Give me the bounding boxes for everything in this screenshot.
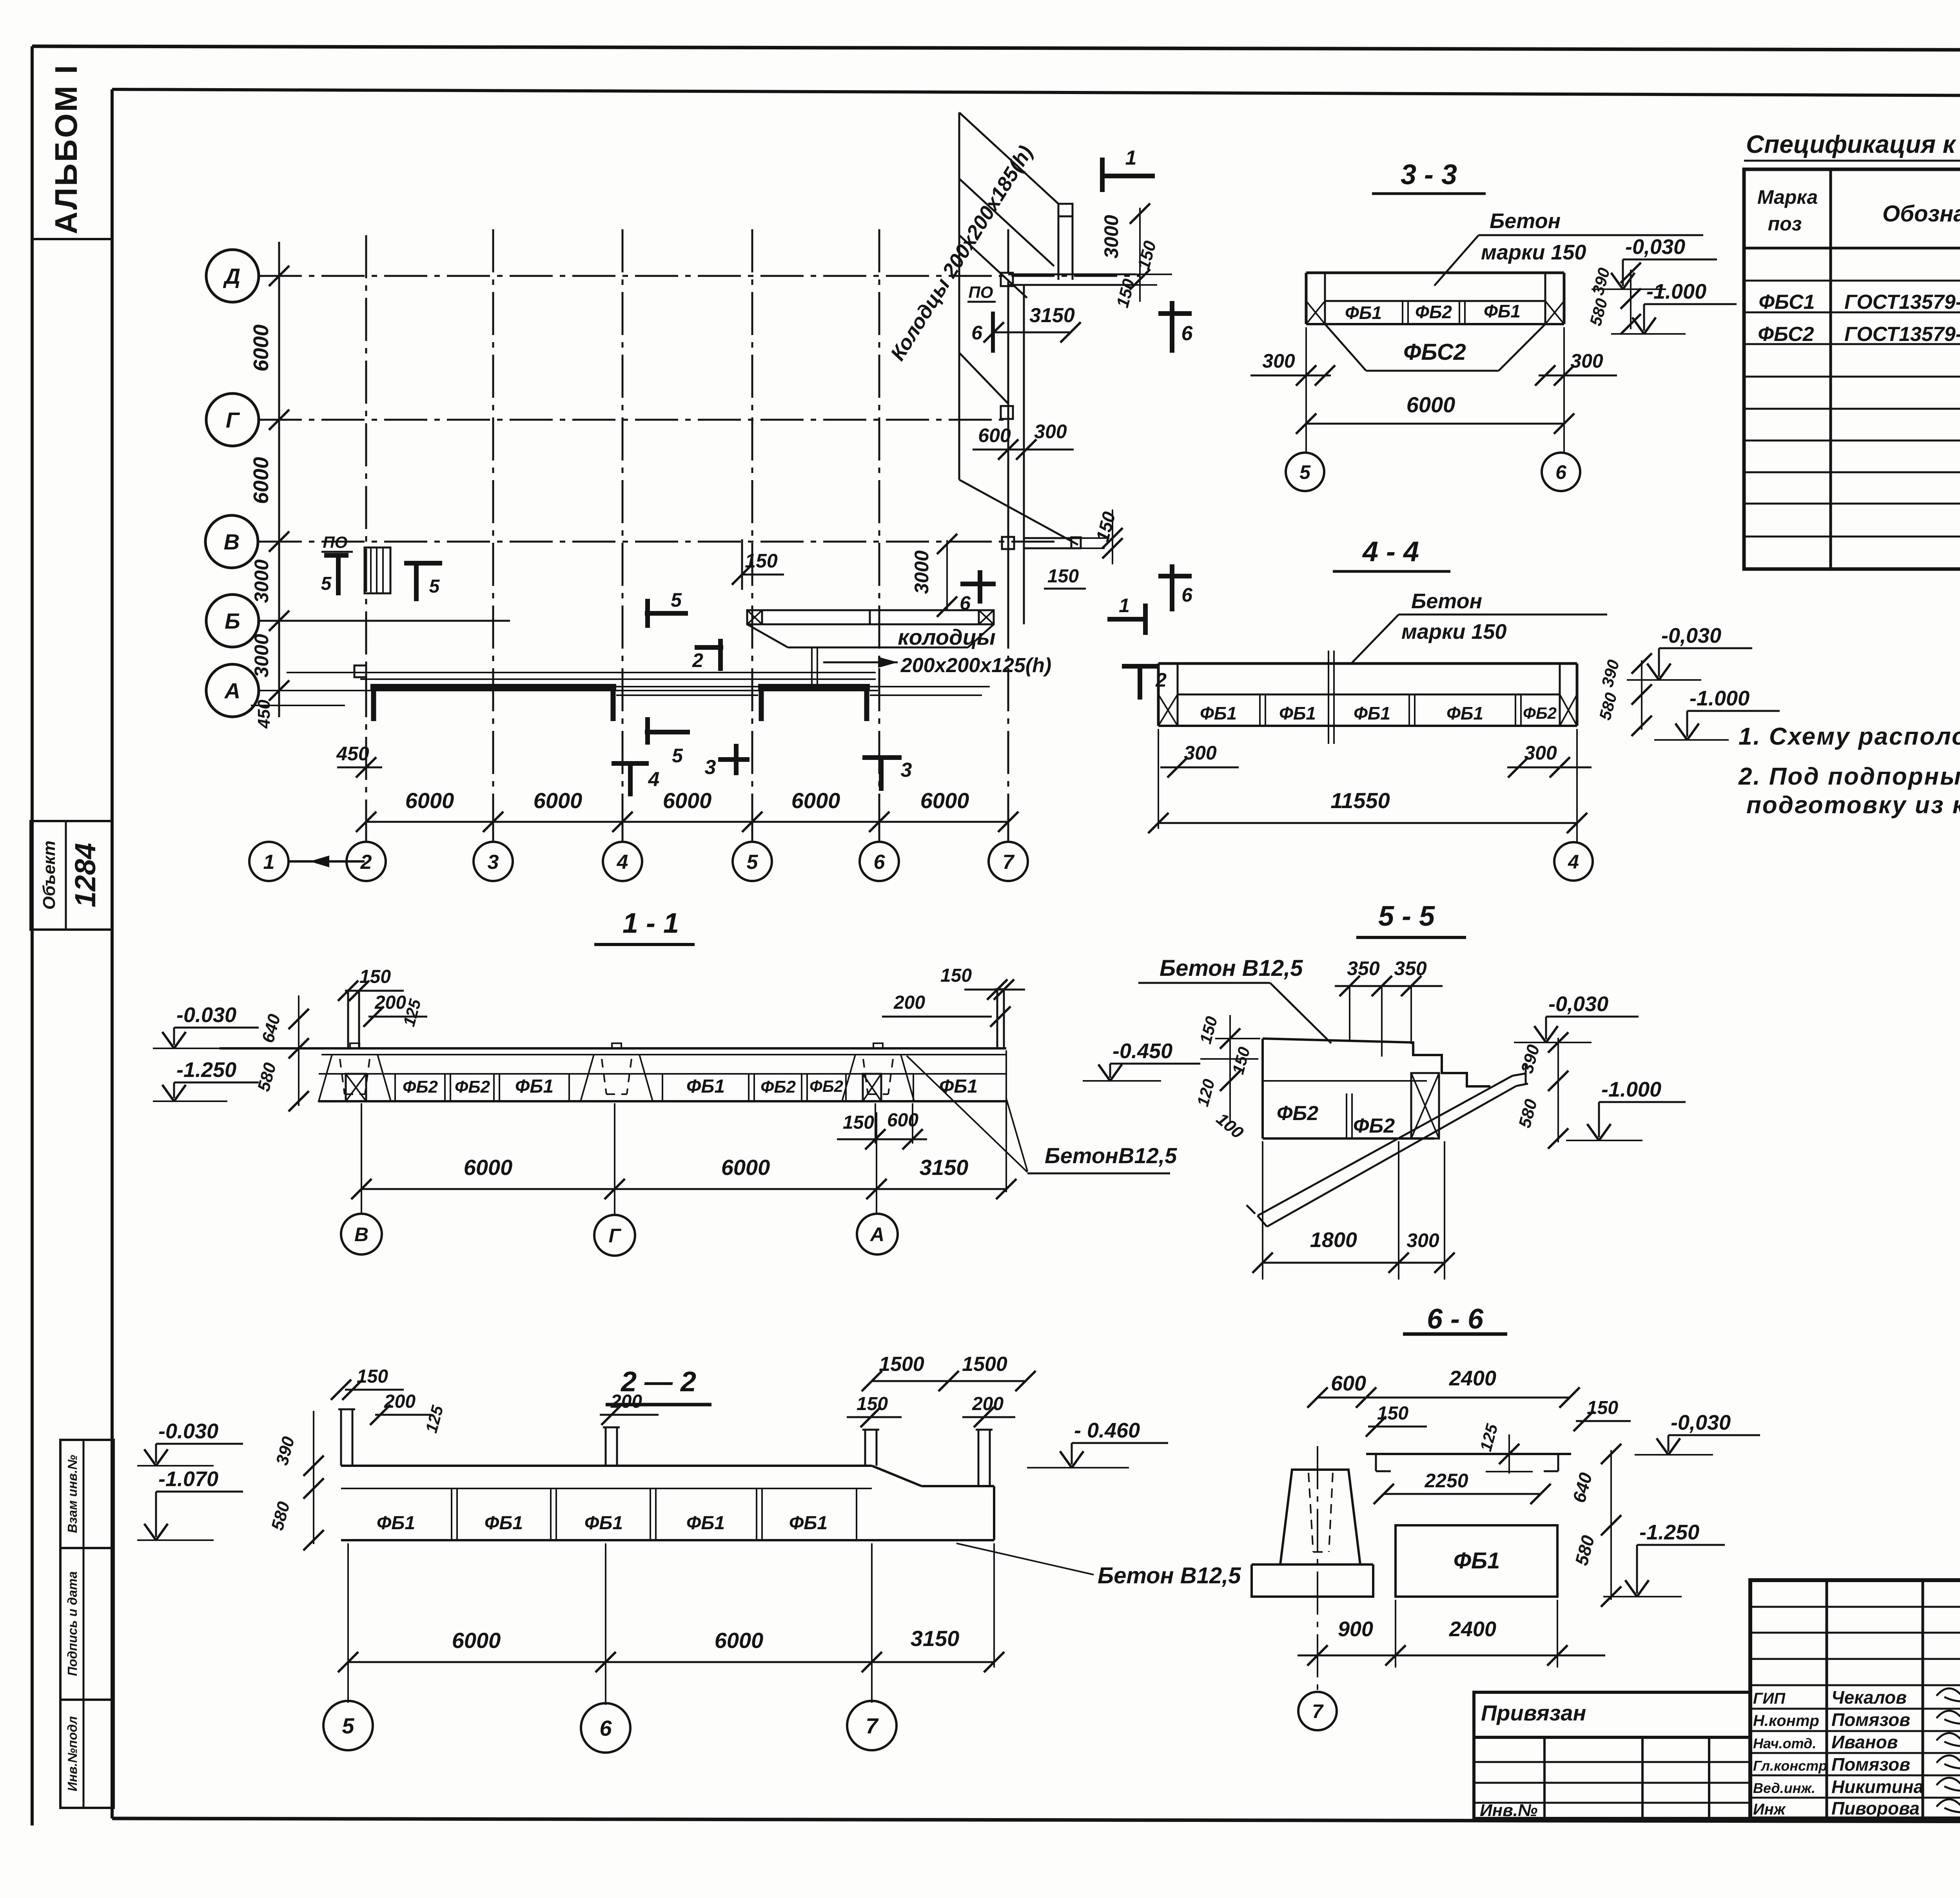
spec table row line 8	[1744, 503, 1960, 505]
svg-text:ПО: ПО	[323, 533, 348, 551]
svg-text:Н.контр: Н.контр	[1753, 1712, 1819, 1729]
radiator hatch lines	[370, 547, 372, 593]
dim 3000 top right extension	[1139, 208, 1141, 302]
sheet outer top border	[32, 46, 1960, 51]
section 5-5 x block	[1411, 1073, 1439, 1138]
object box	[31, 821, 112, 930]
section 4-4 slab top line	[1158, 662, 1577, 665]
section 1-1 footing cap tick B	[350, 1043, 359, 1048]
svg-text:3: 3	[488, 851, 499, 874]
svg-text:3150: 3150	[911, 1626, 960, 1651]
section 2-2 right end extension	[993, 1543, 995, 1668]
svg-text:6000: 6000	[249, 324, 273, 372]
section mark PO-5 left bar	[324, 553, 348, 558]
shaft band diagonal 4	[959, 353, 1008, 404]
svg-text:ФБ1: ФБ1	[584, 1513, 623, 1534]
dim line right of wall D	[1136, 274, 1172, 275]
svg-text:3150: 3150	[920, 1155, 969, 1180]
svg-text:1: 1	[1119, 595, 1130, 616]
svg-text:Бетон: Бетон	[1411, 589, 1482, 613]
dim 600-300 line	[973, 449, 1074, 451]
section 5-5 right dim extension	[1557, 1038, 1559, 1142]
section 6-6 axis dashdot line	[1317, 1446, 1318, 1692]
kolodtsy trapezoid bottom	[788, 647, 968, 649]
kolodtsy plate left end block	[747, 610, 762, 624]
wall A channel 1 left leg	[371, 687, 376, 721]
section 5-5 beton shelf	[1138, 982, 1270, 984]
chain tick at axis y=1584	[269, 611, 289, 631]
upper wall vertical right line	[1072, 207, 1074, 280]
svg-text:3000: 3000	[1100, 215, 1122, 258]
section 2-2 stub at axis 6	[605, 1427, 607, 1466]
section 3-3 extension line right	[1563, 327, 1565, 453]
title block name row line 4	[1750, 1775, 1960, 1777]
section 5-5 ramp top line	[1258, 1076, 1512, 1216]
svg-text:Иванов: Иванов	[1831, 1732, 1898, 1752]
section 1-1 second line	[321, 1054, 1006, 1055]
svg-text:Помязов: Помязов	[1831, 1709, 1910, 1730]
plan row axis circle D	[206, 250, 259, 302]
svg-text:Бетон В12,5: Бетон В12,5	[1098, 1563, 1241, 1588]
section 4-4 right edge outer	[1576, 663, 1579, 726]
spec table row line 9	[1744, 536, 1960, 538]
chain tick at axis y=1071	[269, 410, 289, 430]
section mark T6 top right	[1158, 311, 1192, 316]
svg-text:6000: 6000	[920, 788, 969, 813]
section mark T5	[404, 561, 442, 566]
section 3-3 circle 6	[1542, 453, 1580, 491]
svg-text:-1.000: -1.000	[1690, 687, 1749, 710]
section 4-4 right edge inner	[1559, 663, 1561, 726]
svg-text:ФБ1: ФБ1	[789, 1513, 828, 1534]
svg-text:1800: 1800	[1310, 1228, 1357, 1252]
section 1-1 extension to circle A	[876, 1112, 877, 1213]
section 1-1 extension to circle G	[614, 1103, 615, 1214]
svg-text:150: 150	[357, 1366, 388, 1387]
svg-text:Обозначение: Обозначение	[1882, 201, 1960, 227]
section 3-3 right x block	[1545, 301, 1564, 324]
section mark 5 mid	[645, 611, 688, 616]
section 5-5 bottom dim line	[1263, 1262, 1445, 1264]
column stub to circle x=934	[365, 822, 367, 842]
svg-text:2. Под подпорные стенки и: 2. Под подпорные стенки и ступени выполн…	[1738, 763, 1960, 790]
section 5-5 wall top outline	[1263, 1039, 1490, 1086]
svg-text:5: 5	[429, 576, 440, 597]
svg-text:Подпись и дата: Подпись и дата	[65, 1571, 80, 1676]
svg-text:2400: 2400	[1449, 1617, 1496, 1641]
section mark 5 lower mid	[645, 730, 690, 734]
annex sub row line 1	[1474, 1761, 1750, 1763]
section mark 6 lower right	[1158, 574, 1192, 578]
plan column axis 7	[1007, 229, 1009, 822]
svg-text:350: 350	[1394, 957, 1427, 979]
section 1-1 left upstand	[347, 991, 349, 1048]
svg-text:450: 450	[336, 743, 369, 765]
section 2-2 dim 1500 line	[872, 1380, 1025, 1382]
svg-text:2: 2	[1155, 669, 1167, 691]
section 4-4 blocks bottom line	[1158, 725, 1577, 727]
svg-text:Инв.№: Инв.№	[1480, 1801, 1537, 1820]
shaft band diagonal 2	[959, 179, 1054, 266]
section 2-2 extension to circle 7	[871, 1543, 873, 1703]
svg-text:Никитина: Никитина	[1831, 1777, 1924, 1797]
section 6-6 top dim line	[1318, 1397, 1570, 1399]
kolodtsy connector vertical left	[811, 647, 813, 685]
svg-text:7: 7	[1312, 1700, 1324, 1722]
section 5-5 left dim lines	[1229, 1015, 1231, 1122]
section 6-6 extension right	[1557, 1600, 1558, 1668]
section 1-1 circle G	[594, 1215, 635, 1256]
svg-text:А: А	[224, 678, 240, 703]
section 4-4 beton shelf	[1399, 614, 1607, 616]
svg-text:ФБС1: ФБС1	[1759, 291, 1815, 314]
shaft band left vertical line	[958, 112, 960, 480]
svg-text:ФБ1: ФБ1	[485, 1513, 523, 1534]
chain tick at axis y=1762	[269, 680, 289, 701]
svg-text:150: 150	[1047, 566, 1079, 587]
plan row axis circle G	[206, 393, 259, 446]
svg-text:7: 7	[866, 1713, 879, 1738]
svg-text:350: 350	[1347, 957, 1380, 979]
section mark 6 lower left	[960, 582, 996, 586]
svg-text:150: 150	[940, 965, 972, 986]
kolodtsy trapezoid right side	[968, 624, 994, 647]
svg-text:ГИП: ГИП	[1753, 1690, 1786, 1707]
section 2-2 block dividers	[451, 1488, 452, 1540]
svg-text:ФБ1: ФБ1	[1446, 703, 1483, 723]
svg-text:ФБ1: ФБ1	[1354, 703, 1390, 723]
svg-text:5: 5	[1299, 461, 1311, 483]
svg-text:Помязов: Помязов	[1831, 1754, 1910, 1775]
svg-text:Д: Д	[223, 264, 240, 288]
signature of Помязов	[1936, 1708, 1960, 1724]
section 2-2 slab step diagonal	[872, 1466, 922, 1486]
spec table row line 4	[1744, 376, 1960, 378]
section 1-1 beton leader 1	[907, 1056, 1027, 1172]
section 3-3 extension line left	[1305, 327, 1307, 453]
shaft band diagonal 3	[959, 235, 1027, 298]
section 6-6 title underline	[1403, 1332, 1507, 1336]
svg-text:600: 600	[978, 424, 1011, 446]
svg-text:5: 5	[671, 589, 682, 611]
section 1-1 slab top line	[220, 1047, 1006, 1050]
svg-text:300: 300	[1184, 742, 1217, 764]
section 5-5 base top line	[1263, 1080, 1427, 1082]
section 4-4 block divider 3	[1515, 694, 1516, 726]
svg-text:ФБ1: ФБ1	[939, 1076, 978, 1097]
section 1-1 blocks bottom line	[319, 1100, 1006, 1102]
section 6-6 extension left	[1395, 1600, 1396, 1668]
left stamp divider 2	[60, 1699, 114, 1701]
kolodtsy plate top line	[747, 609, 994, 611]
svg-text:подготовку из крупнозернист: подготовку из крупнозернистого песка h =…	[1746, 792, 1960, 819]
section 5-5 ramp bottom line	[1267, 1086, 1516, 1227]
section 4-4 circle 4	[1554, 842, 1593, 881]
svg-text:1: 1	[263, 851, 275, 874]
svg-text:900: 900	[1338, 1617, 1373, 1641]
section 2-2 blocks bottom line	[341, 1539, 994, 1541]
section 3-3 right dim extension	[1630, 270, 1632, 329]
section 5-5 wall left edge	[1261, 1039, 1264, 1138]
title block outer border	[1750, 1580, 1960, 1818]
wall A thick channel 2 top bar	[758, 684, 870, 690]
plan column circle 4	[603, 842, 642, 881]
section 2-2 title underline	[606, 1403, 711, 1407]
section 1-1 left x block	[346, 1074, 366, 1101]
dim 150 near axis5 underline	[743, 574, 784, 576]
radiator hatch symbol frame	[365, 547, 390, 593]
wall V marker square	[1002, 537, 1014, 549]
svg-text:ФБ2: ФБ2	[455, 1077, 490, 1097]
axis A line	[259, 690, 878, 691]
svg-text:200х200х125(h): 200х200х125(h)	[900, 654, 1052, 677]
svg-text:300: 300	[1034, 421, 1067, 442]
svg-text:АЛЬБОМ I: АЛЬБОМ I	[49, 63, 83, 234]
left stamp divider 1	[60, 1547, 114, 1549]
svg-text:6000: 6000	[249, 457, 273, 504]
shaft band diagonal 1	[959, 112, 1058, 204]
shaft band bottom diagonal	[959, 480, 1078, 545]
section 1-1 footing cap tick G	[612, 1043, 621, 1048]
svg-text:300: 300	[1406, 1229, 1439, 1251]
section 1-1 footing cap tick A	[873, 1043, 883, 1048]
section 2-2 bottom dim line	[348, 1661, 994, 1663]
section 3-3 right edge outer	[1563, 273, 1566, 324]
plan column axis 5	[751, 229, 753, 822]
plan column circle 7	[989, 842, 1028, 881]
section 3-3 slab top line	[1306, 272, 1564, 274]
wall A channel 2 left leg	[759, 687, 764, 721]
svg-text:В: В	[354, 1224, 368, 1245]
svg-text:6: 6	[1181, 584, 1193, 606]
section 4-4 break line 2	[1333, 651, 1335, 744]
section 3-3 left edge inner	[1324, 273, 1326, 324]
svg-text:6000: 6000	[452, 1628, 501, 1653]
svg-text:ФБ1: ФБ1	[377, 1513, 415, 1534]
wall D bottom line	[1008, 284, 1136, 286]
svg-text:450: 450	[254, 700, 274, 729]
svg-text:марки 150: марки 150	[1401, 620, 1506, 644]
svg-text:Бетон: Бетон	[1490, 209, 1561, 233]
signature of Никитина	[1936, 1775, 1960, 1791]
plan row axis circle A	[206, 664, 259, 717]
svg-text:ФБС2: ФБС2	[1403, 339, 1466, 365]
svg-text:6: 6	[874, 851, 886, 874]
svg-text:6: 6	[971, 322, 983, 344]
left stamp vertical divider	[83, 1440, 85, 1808]
spec table row line 7	[1744, 471, 1960, 473]
wall A channel 2 right leg	[864, 687, 869, 721]
chain tick at axis y=704	[269, 266, 289, 286]
section 1-1 beton label underline	[1027, 1173, 1170, 1175]
svg-text:ФБ2: ФБ2	[1277, 1102, 1318, 1125]
section 2-2 right slab top	[922, 1485, 994, 1487]
drawing frame top line	[112, 89, 1960, 97]
svg-text:150: 150	[857, 1394, 888, 1414]
svg-text:-0.030: -0.030	[158, 1419, 218, 1443]
signature of Пиворова	[1936, 1796, 1960, 1813]
svg-text:1 - 1: 1 - 1	[622, 908, 679, 939]
annex privyazan box	[1474, 1692, 1750, 1818]
svg-text:6000: 6000	[405, 788, 454, 813]
section mark 3 left	[718, 757, 750, 762]
leader line from circle 1 to axis 2	[289, 860, 365, 863]
section 1-1 bottom dim line	[361, 1188, 1006, 1190]
svg-text:ФБ1: ФБ1	[686, 1513, 725, 1534]
svg-text:11550: 11550	[1330, 788, 1390, 813]
svg-text:4 - 4: 4 - 4	[1362, 536, 1419, 567]
section 4-4 left edge inner	[1177, 663, 1179, 726]
section 4-4 block divider 2	[1408, 694, 1410, 726]
svg-text:Взам инв.№: Взам инв.№	[65, 1455, 80, 1533]
annex sub vertical 3	[1708, 1737, 1710, 1818]
svg-text:6000: 6000	[464, 1155, 513, 1180]
section mark 1 lower	[1107, 617, 1147, 622]
section 2-2 left dim extension	[313, 1411, 314, 1544]
section 5-5 dim 350 extensions	[1349, 986, 1350, 1041]
svg-text:5: 5	[342, 1713, 354, 1738]
section 1-1 right upstand	[996, 989, 998, 1048]
svg-text:Объект: Объект	[40, 841, 59, 910]
svg-text:-0,030: -0,030	[1671, 1411, 1731, 1434]
svg-text:1500: 1500	[962, 1353, 1007, 1376]
svg-text:150: 150	[745, 550, 778, 572]
title block vertical 1	[1826, 1580, 1828, 1818]
svg-text:6000: 6000	[721, 1155, 770, 1180]
section 4-4 left x block	[1158, 694, 1178, 726]
section 3-3 beton leader	[1434, 235, 1479, 286]
section 6-6 right hook	[1557, 1454, 1559, 1471]
svg-text:Г: Г	[609, 1225, 622, 1247]
section mark 2 lower right	[1122, 664, 1158, 669]
section 6-6 dim 125 line	[1508, 1434, 1510, 1474]
svg-text:6: 6	[1555, 461, 1567, 483]
section 6-6 top line	[1366, 1453, 1571, 1455]
svg-text:200: 200	[972, 1394, 1004, 1414]
column stub to circle x=2572	[1007, 822, 1009, 842]
specification table title underline	[1744, 160, 1960, 162]
section 3-3 right edge inner	[1544, 273, 1546, 324]
section 5-5 dim 350 line	[1335, 985, 1443, 987]
wall V right end marker	[1071, 537, 1081, 548]
section 6-6 footing dashed inner right	[1329, 1473, 1333, 1552]
section mark 2 upper	[695, 645, 723, 650]
signature of Иванов	[1936, 1730, 1960, 1746]
plan column axis 4	[622, 229, 624, 822]
section 1-1 blocks left group dividers	[394, 1074, 396, 1101]
svg-text:ФБ2: ФБ2	[760, 1077, 796, 1097]
section 4-4 block divider 1	[1259, 694, 1261, 726]
svg-text:Б: Б	[225, 609, 240, 633]
svg-text:ФБС2: ФБС2	[1758, 323, 1814, 346]
wall A mid double line lower	[616, 694, 758, 696]
svg-text:6: 6	[599, 1716, 612, 1740]
svg-text:ФБ2: ФБ2	[1353, 1115, 1395, 1137]
svg-text:4: 4	[648, 768, 660, 791]
svg-text:6 - 6: 6 - 6	[1427, 1303, 1484, 1335]
signature of Помязов	[1936, 1752, 1960, 1769]
section 1-1 extension to circle B	[361, 1103, 362, 1213]
left dimension chain line	[278, 242, 280, 717]
section 3-3 title underline	[1372, 192, 1486, 195]
section 1-1 title underline	[594, 943, 695, 946]
column stub to circle x=1919	[751, 822, 753, 842]
kolodtsy label leader arrow	[823, 662, 898, 663]
svg-text:Инж: Инж	[1753, 1801, 1786, 1818]
title block left row line 1	[1750, 1606, 1960, 1608]
section 3-3 beton label shelf	[1479, 234, 1703, 236]
plan row axis circle V	[205, 515, 258, 568]
title block name row line 2	[1750, 1730, 1960, 1732]
title block left row line 4	[1750, 1684, 1960, 1686]
annex privyazan divider	[1474, 1736, 1750, 1739]
svg-text:-1.070: -1.070	[158, 1467, 218, 1491]
signature of Чекалов	[1936, 1685, 1960, 1702]
section 2-2 extension to circle 6	[605, 1543, 606, 1705]
svg-text:Бетон В12,5: Бетон В12,5	[1160, 955, 1303, 981]
section 2-2 stub at axis 7	[864, 1430, 866, 1466]
svg-text:-1.250: -1.250	[1639, 1521, 1699, 1544]
svg-text:ФБ1: ФБ1	[1200, 703, 1237, 723]
axis G line	[259, 419, 1004, 421]
wall 7 vertical left line	[1007, 285, 1009, 624]
svg-text:2250: 2250	[1424, 1470, 1468, 1492]
svg-text:Привязан: Привязан	[1481, 1700, 1586, 1725]
svg-text:ФБ2: ФБ2	[1415, 302, 1452, 322]
wall V bottom line	[1024, 547, 1081, 549]
section 1-1 circle A	[857, 1214, 898, 1254]
svg-text:2400: 2400	[1449, 1367, 1496, 1390]
section 5-5 fb2 bottom line	[1263, 1137, 1434, 1140]
plan column axis 6	[878, 229, 880, 822]
wall A second thin line	[360, 678, 876, 680]
svg-text:3000: 3000	[250, 634, 272, 677]
wall A channel 1 right leg	[611, 687, 616, 721]
section 1-1 far right block	[913, 1074, 914, 1101]
kolodtsy trapezoid left side	[747, 624, 788, 647]
section 4-4 beton leader	[1351, 615, 1399, 663]
svg-text:3 - 3: 3 - 3	[1401, 159, 1457, 190]
column stub to circle x=1588	[622, 822, 624, 842]
svg-text:-0,030: -0,030	[1548, 992, 1608, 1016]
svg-text:марки 150: марки 150	[1481, 241, 1586, 264]
annex sub row line 2	[1474, 1782, 1750, 1784]
wall D marker square	[1001, 273, 1013, 286]
section 4-4 extension line left	[1158, 729, 1159, 829]
svg-text:4: 4	[617, 851, 628, 874]
section 6-6 footing trapezoid	[1280, 1470, 1360, 1564]
wall A mid double line upper	[616, 686, 758, 687]
svg-text:3: 3	[705, 756, 716, 779]
svg-text:-1.000: -1.000	[1601, 1078, 1661, 1101]
svg-text:-1.000: -1.000	[1646, 280, 1706, 303]
kolodtsy connector vertical right	[817, 647, 818, 685]
axis V line	[259, 541, 1058, 543]
section 4-4 extension line right	[1576, 729, 1578, 843]
title block name row line 3	[1750, 1752, 1960, 1754]
section 2-2 left upstand	[340, 1409, 342, 1466]
section 2-2 right edge	[993, 1486, 995, 1540]
svg-text:ФБ1: ФБ1	[1484, 301, 1521, 321]
upper wall vertical left line	[1058, 204, 1060, 280]
svg-text:150: 150	[1587, 1398, 1618, 1418]
upper wall top marker	[1058, 204, 1073, 216]
dim 150 near axis5 vertical line	[741, 539, 743, 590]
section 6-6 bottom dim line	[1298, 1655, 1605, 1657]
svg-text:600: 600	[887, 1110, 918, 1131]
spec table row line 6	[1744, 440, 1960, 442]
section 3-3 trapezoid right side	[1499, 324, 1545, 371]
